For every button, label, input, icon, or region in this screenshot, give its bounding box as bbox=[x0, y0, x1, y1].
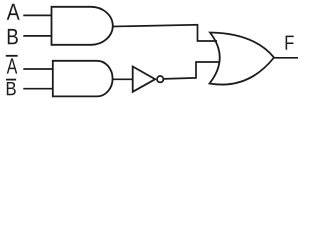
wire B-bar to U2 bbox=[23, 88, 53, 90]
inverter U3 bubble bbox=[157, 76, 163, 82]
AND gate U1 bbox=[52, 7, 113, 45]
wire U2 output to inverter U3 bbox=[113, 78, 133, 80]
OR gate U4 bbox=[210, 33, 275, 85]
input label B bbox=[8, 29, 18, 44]
wire U3 output to OR bottom input bbox=[164, 62, 219, 79]
wire U4 output to F bbox=[274, 57, 298, 59]
output label F bbox=[286, 36, 294, 50]
input label B-bar bbox=[6, 80, 16, 96]
wire B to U1 bbox=[23, 35, 52, 37]
wire A to U1 bbox=[23, 14, 52, 16]
AND gate U2 bbox=[53, 61, 113, 97]
input label A-bar bbox=[6, 56, 18, 74]
inverter U3 triangle bbox=[133, 67, 156, 92]
input label A bbox=[7, 4, 20, 20]
wire A-bar to U2 bbox=[23, 68, 53, 70]
wire U1 output to OR top input bbox=[113, 25, 217, 41]
